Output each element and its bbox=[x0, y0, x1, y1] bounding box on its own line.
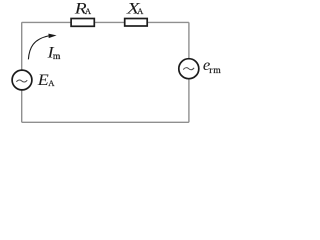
reactance XA bbox=[125, 19, 148, 27]
svg-text:rm: rm bbox=[209, 65, 221, 76]
arrowhead of Im bbox=[48, 34, 56, 39]
svg-text:m: m bbox=[53, 51, 61, 62]
source erm bbox=[179, 59, 199, 79]
wire right bbox=[188, 22, 190, 122]
svg-text:A: A bbox=[137, 6, 144, 16]
svg-text:A: A bbox=[48, 78, 55, 88]
current arrow Im bbox=[28, 36, 48, 60]
tilde of EA bbox=[16, 80, 27, 82]
tilde of erm bbox=[183, 68, 194, 70]
svg-text:A: A bbox=[85, 6, 92, 16]
wire left bbox=[21, 22, 23, 122]
wire bottom bbox=[22, 121, 189, 123]
source EA bbox=[12, 70, 32, 90]
wire top bbox=[22, 21, 189, 23]
resistor RA bbox=[71, 19, 94, 27]
